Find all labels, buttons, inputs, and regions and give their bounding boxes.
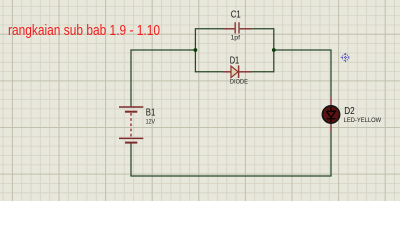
capacitor C1 leads [223, 28, 252, 30]
battery B1 cell1 long plate [119, 106, 143, 108]
diode D1 leads [223, 71, 252, 73]
LED D2 bottom red pin [330, 123, 332, 132]
wire: battery bottom to bottom rail [130, 144, 132, 177]
svg-text:D2: D2 [344, 106, 355, 117]
svg-text:C1: C1 [231, 10, 241, 21]
LED D2 inner diode symbol [327, 108, 336, 122]
wire: bottom rail [130, 175, 331, 177]
svg-text:DIODE: DIODE [230, 78, 249, 85]
wire: loop left vertical [194, 28, 196, 72]
wire: loop right vertical [273, 28, 275, 72]
wire: LED bottom to bottom rail [330, 131, 332, 176]
svg-text:rangkaian sub bab 1.9 - 1.10: rangkaian sub bab 1.9 - 1.10 [8, 23, 160, 39]
battery B1 cell2 short plate [125, 142, 137, 144]
svg-text:B1: B1 [146, 107, 156, 118]
LED D2 body circle [322, 106, 339, 123]
diode D1 cathode bar [238, 65, 240, 78]
LED D2 top red pin [330, 97, 332, 106]
wire: loop bottom branch left green segment [195, 71, 223, 73]
battery B1 cell2 long plate [119, 137, 143, 139]
wire: loop top branch left green segment [195, 28, 223, 30]
svg-text:LED-YELLOW: LED-YELLOW [344, 117, 382, 124]
node A junction dot [194, 48, 198, 52]
battery B1 cell1 short plate [125, 111, 137, 113]
diode D1 triangle [231, 66, 238, 78]
svg-text:1pf: 1pf [231, 35, 241, 42]
battery B1 dashed link [130, 113, 132, 137]
wire: node B to LED corner [274, 50, 331, 97]
svg-text:D1: D1 [230, 55, 240, 66]
wire: loop top branch right green segment [252, 28, 273, 30]
svg-text:12V: 12V [146, 118, 156, 125]
wire: node A to battery top corner [131, 50, 195, 107]
origin marker (blue cross-diamond) [341, 53, 350, 61]
wire: loop bottom branch right green segment [252, 71, 274, 73]
node B junction dot [272, 48, 276, 52]
capacitor C1 plates [235, 22, 239, 33]
